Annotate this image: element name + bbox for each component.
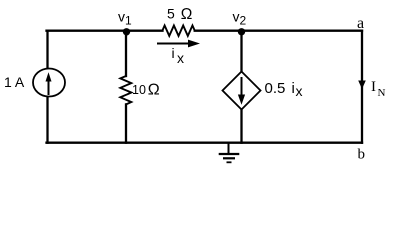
svg-text:a: a (357, 15, 364, 32)
svg-text:x: x (296, 83, 303, 99)
svg-text:1 A: 1 A (4, 74, 25, 90)
svg-text:5: 5 (167, 5, 175, 21)
svg-text:10: 10 (132, 83, 146, 97)
svg-text:Ω: Ω (181, 6, 193, 23)
svg-text:I: I (371, 79, 376, 95)
svg-text:b: b (358, 147, 366, 163)
svg-text:2: 2 (240, 14, 247, 28)
svg-text:x: x (177, 50, 184, 66)
svg-text:0.5: 0.5 (265, 80, 286, 97)
svg-text:v: v (118, 9, 125, 25)
svg-text:Ω: Ω (148, 81, 160, 98)
svg-text:v: v (233, 9, 240, 25)
svg-text:i: i (172, 45, 175, 61)
svg-text:1: 1 (125, 14, 132, 28)
svg-text:N: N (378, 87, 386, 99)
svg-text:i: i (292, 80, 295, 97)
